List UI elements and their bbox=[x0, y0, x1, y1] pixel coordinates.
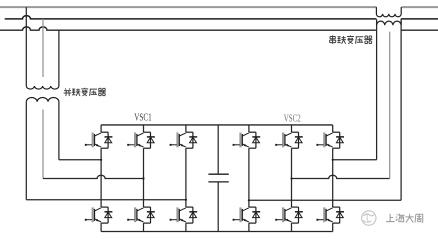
series transformer T2 primary winding (in phase-A line) bbox=[376, 7, 401, 17]
node: junction dot bbox=[185, 199, 187, 201]
wire: T2 phase C lead vertical bbox=[400, 21, 402, 200]
node: junction dot bbox=[100, 159, 102, 161]
wire: DC negative rail bbox=[101, 231, 333, 233]
capacitor C1 top plate bbox=[208, 173, 228, 175]
VSC1 lower IGBT Q4 with antiparallel diode bbox=[143, 223, 145, 231]
label: 并联变压器 (shunt transformer) bbox=[64, 88, 72, 96]
VSC2 lower IGBT Q12 with antiparallel diode bbox=[332, 223, 334, 231]
VSC1 upper IGBT Q3 with antiparallel diode bbox=[143, 125, 145, 132]
VSC1 upper IGBT Q1 with antiparallel diode bbox=[100, 125, 102, 132]
wire: T1 to VSC1 leg1 midpoint bbox=[59, 159, 101, 161]
VSC1 lower IGBT Q6 with antiparallel diode bbox=[185, 223, 187, 231]
wire: T1 to VSC1 leg3 midpoint bbox=[26, 199, 186, 201]
node: junction dot bbox=[332, 159, 334, 161]
shunt transformer T1 secondary winding bbox=[26, 98, 59, 102]
wire: T1 secondary phase C lead down bbox=[58, 102, 60, 160]
VSC2 upper IGBT Q9 with antiparallel diode bbox=[291, 125, 293, 132]
wire: VSC1 leg2 midpoint vertical bbox=[143, 148, 145, 207]
svg-text:VSC2: VSC2 bbox=[284, 113, 301, 124]
wire: phase-A bus line right segment bbox=[401, 6, 438, 8]
wire: capacitor top lead bbox=[217, 125, 219, 174]
wire: VSC2 leg1 midpoint vertical bbox=[248, 148, 250, 207]
wire: T1 secondary phase B lead down (gray) bbox=[42, 110, 44, 179]
wire: phase-C bus line right segment bbox=[401, 29, 438, 31]
VSC2 lower IGBT Q10 with antiparallel diode bbox=[291, 223, 293, 231]
wire: phase-B bus line left segment (hop over tap A) bbox=[5, 16, 377, 19]
wire: shunt tap phase C vertical bbox=[58, 30, 60, 86]
wire: shunt tap phase B vertical (gray) bbox=[42, 19, 44, 77]
wire: VSC2 leg3 midpoint vertical bbox=[332, 148, 334, 207]
wire: phase-B lead into T2 left bbox=[376, 19, 378, 25]
wire: capacitor bottom lead bbox=[217, 182, 219, 232]
series transformer T2 secondary winding bbox=[377, 21, 402, 25]
wire: VSC1 leg1 midpoint vertical bbox=[100, 148, 102, 207]
wire: phase-A bus line left segment bbox=[0, 6, 376, 8]
wire: shunt tap phase A vertical bbox=[25, 7, 27, 86]
wire: phase-C bus line left segment (hops over taps A,B) bbox=[0, 27, 376, 30]
node: junction dot bbox=[142, 177, 144, 179]
wire: T2 phase B lead vertical (gray) bbox=[389, 32, 391, 179]
VSC2 upper IGBT Q11 with antiparallel diode bbox=[332, 125, 334, 132]
wire: phase-B bus line right segment bbox=[401, 18, 438, 20]
wire: T1 to VSC1 leg2 midpoint (hop over leg1) bbox=[43, 175, 144, 178]
node: junction dot bbox=[248, 199, 250, 201]
VSC2 lower IGBT Q8 with antiparallel diode bbox=[248, 223, 250, 231]
wire: VSC1 leg3 midpoint vertical bbox=[185, 148, 187, 207]
node: junction dot bbox=[290, 177, 292, 179]
capacitor C1 bottom plate bbox=[208, 181, 228, 183]
svg-text:VSC1: VSC1 bbox=[134, 113, 152, 124]
wire: VSC2 leg2 midpoint vertical bbox=[291, 148, 293, 207]
VSC2 upper IGBT Q7 with antiparallel diode bbox=[248, 125, 250, 132]
label: 串联变压器 (series transformer) bbox=[330, 35, 336, 44]
wire: VSC2 leg1 midpoint to T2 phase C lead bbox=[249, 199, 401, 201]
shunt transformer T1 primary winding bbox=[26, 86, 59, 89]
wire: phase-B lead into T2 right bbox=[400, 19, 402, 25]
wire: T1 secondary phase A lead down bbox=[25, 102, 27, 200]
wire: VSC2 leg2 midpoint to T2 phase B lead (hop over leg3) bbox=[292, 175, 390, 178]
watermark text: 上海大周 bbox=[386, 214, 394, 222]
watermark logo (Shanghai Dazhou emblem) bbox=[362, 211, 376, 225]
VSC1 upper IGBT Q5 with antiparallel diode bbox=[185, 125, 187, 132]
VSC1 lower IGBT Q2 with antiparallel diode bbox=[100, 223, 102, 231]
wire: VSC2 leg3 midpoint to T2 phase A lead bbox=[333, 159, 377, 161]
wire: T2 phase A lead vertical bbox=[376, 23, 378, 160]
wire: DC positive rail bbox=[101, 124, 333, 126]
